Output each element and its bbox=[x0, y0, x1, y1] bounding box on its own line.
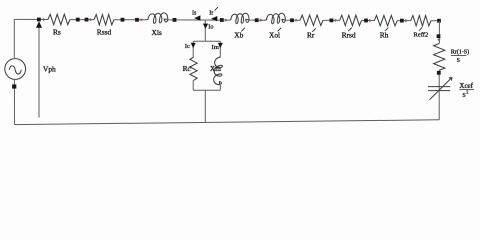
magnetizing loop top wire bbox=[193, 40, 220, 42]
svg-text:Xol: Xol bbox=[269, 31, 280, 40]
connector mark bbox=[225, 19, 228, 22]
magnetizing loop bottom wire bbox=[193, 89, 220, 91]
resistor Rrsd' bbox=[340, 15, 362, 25]
wire below source bbox=[13, 80, 15, 125]
node Xls out bbox=[173, 18, 177, 22]
node stator input bbox=[37, 18, 41, 22]
load resistor Rr(1-S)/S bbox=[434, 44, 445, 71]
current arrow Io bbox=[203, 24, 208, 29]
resistor Rs bbox=[48, 14, 70, 24]
node Xol in bbox=[255, 18, 259, 22]
prime tick on Ir bbox=[215, 7, 218, 10]
wire Rssd to Xls bbox=[114, 19, 146, 21]
current arrow Ic bbox=[191, 43, 196, 48]
node Rh in bbox=[364, 19, 368, 23]
node Rssd out bbox=[121, 18, 125, 22]
inductor Xls bbox=[146, 13, 167, 23]
resistor Rh' bbox=[374, 15, 397, 25]
resistor Reff2 bbox=[411, 16, 431, 26]
inductor Xm bbox=[214, 56, 223, 85]
wire Rrsd to Rh bbox=[362, 20, 375, 22]
connector mark bbox=[335, 19, 338, 22]
current arrow Is bbox=[194, 15, 200, 20]
wire Xls to junction bbox=[168, 19, 230, 21]
node Xls in bbox=[135, 18, 139, 22]
svg-text:Io: Io bbox=[208, 24, 213, 31]
node Reff2 in bbox=[400, 19, 404, 23]
right branch wire lower bbox=[219, 84, 221, 90]
wire Rh to Reff2 bbox=[397, 20, 411, 22]
resistor Rr' bbox=[300, 15, 323, 25]
node below source bbox=[12, 84, 16, 88]
Vph measurement arrow up bbox=[36, 21, 42, 28]
prime tick on Rr bbox=[312, 28, 316, 31]
node Xb in bbox=[220, 18, 224, 22]
svg-text:Rc: Rc bbox=[183, 64, 192, 73]
prime tick on Xb bbox=[241, 28, 244, 32]
inductor Xol' bbox=[265, 13, 285, 23]
node Rssd in bbox=[85, 18, 89, 22]
resistor Rc bbox=[190, 57, 197, 80]
top rail wire: source corner to node bbox=[14, 18, 48, 20]
svg-text:Ic: Ic bbox=[185, 43, 190, 50]
prime tick on Rrsd bbox=[348, 28, 351, 31]
connector mark bbox=[260, 19, 263, 22]
svg-text:Im: Im bbox=[212, 44, 220, 51]
svg-text:2: 2 bbox=[466, 90, 468, 95]
svg-text:Rr(1-S): Rr(1-S) bbox=[451, 49, 469, 56]
right branch wire upper (Im) bbox=[219, 41, 221, 56]
svg-text:S: S bbox=[457, 58, 460, 64]
svg-text:Xls: Xls bbox=[152, 28, 162, 37]
svg-text:Reff2: Reff2 bbox=[413, 32, 428, 39]
left branch wire lower bbox=[192, 80, 194, 90]
connector mark bbox=[90, 18, 93, 21]
node top right corner bbox=[437, 19, 441, 23]
connector mark bbox=[405, 19, 408, 22]
wire Rr to Rrsd bbox=[323, 19, 340, 21]
svg-text:Rssd: Rssd bbox=[97, 28, 112, 37]
current arrow Ir' bbox=[211, 16, 217, 21]
svg-text:Vph: Vph bbox=[43, 64, 56, 73]
wire Xb to Xol bbox=[249, 19, 265, 21]
svg-text:Rh: Rh bbox=[380, 31, 389, 40]
svg-text:Ir: Ir bbox=[209, 9, 213, 16]
connector mark bbox=[295, 19, 298, 22]
magnetizing feed wire from junction bbox=[204, 20, 206, 41]
svg-text:Rrsd: Rrsd bbox=[342, 31, 356, 40]
svg-text:Xm: Xm bbox=[210, 64, 221, 73]
AC source Vph circle bbox=[5, 59, 26, 80]
connector mark bbox=[369, 19, 372, 22]
node Rr in bbox=[290, 18, 294, 22]
node Rrsd in bbox=[330, 19, 334, 23]
bottom rail wire bbox=[15, 120, 440, 125]
wire Xol to Rr bbox=[285, 19, 300, 21]
variable reactance Xcef/S2 plates bbox=[428, 87, 450, 91]
wire load resistor to variable reactance bbox=[438, 70, 440, 120]
prime tick on Reff2 bbox=[419, 27, 422, 30]
right branch vertical wire top bbox=[438, 21, 440, 44]
resistor Rssd bbox=[94, 15, 114, 25]
svg-text:Rr: Rr bbox=[307, 31, 315, 40]
wire Rs to Rssd bbox=[70, 19, 94, 21]
node load resistor in bbox=[437, 34, 441, 38]
sine wave inside source bbox=[9, 66, 21, 74]
wire Reff2 to top-right corner bbox=[431, 20, 440, 22]
prime tick on Xol bbox=[278, 28, 281, 32]
svg-text:Xb: Xb bbox=[234, 31, 243, 40]
left branch wire upper (Ic) bbox=[192, 41, 194, 57]
left vertical wire top bbox=[13, 19, 15, 58]
magnetizing branch wire to bottom rail bbox=[204, 90, 206, 122]
node reactance in bbox=[437, 71, 441, 75]
Vph measurement line bbox=[38, 25, 40, 118]
current arrow Im bbox=[218, 43, 223, 48]
inductor Xb' (rotor bar leakage) bbox=[229, 13, 249, 23]
connector mark bbox=[437, 39, 440, 42]
svg-text:Rs: Rs bbox=[53, 28, 61, 37]
variable reactance arrow bbox=[430, 78, 452, 100]
node Rs out bbox=[76, 18, 80, 22]
prime tick on Rh bbox=[385, 28, 388, 31]
connector mark bbox=[141, 18, 144, 21]
connector mark bbox=[43, 18, 46, 21]
svg-text:Is: Is bbox=[192, 9, 197, 16]
